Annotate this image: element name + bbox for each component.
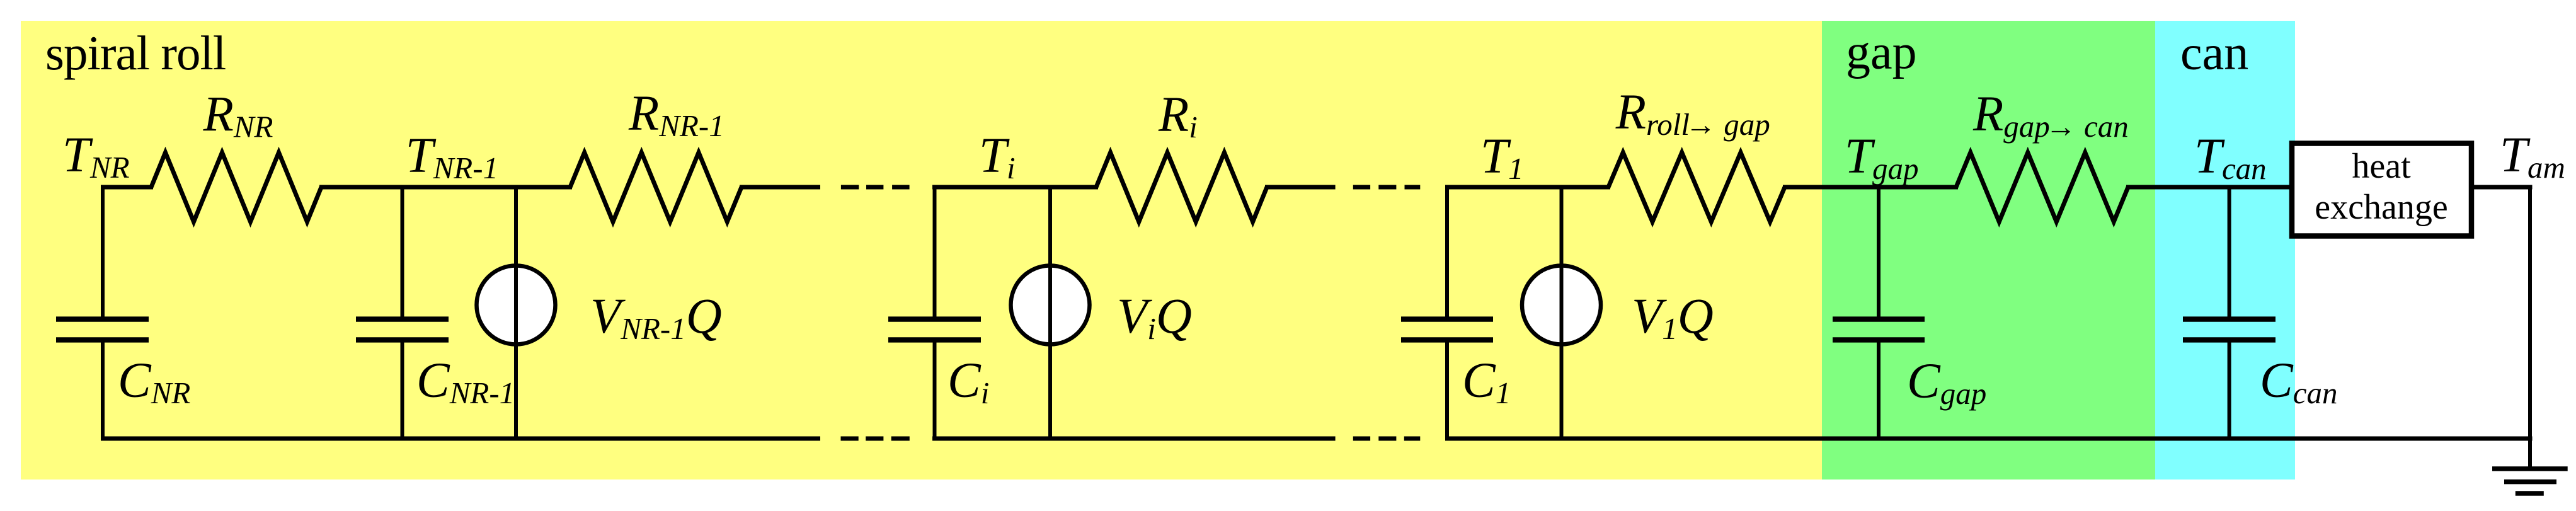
label C_1: [1462, 353, 1511, 410]
node T_NR branch: upper wire: [101, 185, 105, 322]
heat exchange block U1: [2292, 144, 2471, 236]
resistor R_i: [1096, 152, 1267, 222]
wire: top rail R_NR-1 to first ellipsis: [740, 185, 820, 190]
svg-text:spiral roll: spiral roll: [45, 26, 226, 80]
svg-text:Tam: Tam: [2500, 128, 2565, 185]
node T_i branch: upper wire: [933, 185, 937, 322]
wire: top rail T_NR to R_NR: [101, 185, 153, 190]
svg-text:exchange: exchange: [2315, 188, 2447, 227]
node T_can branch: lower wire: [2228, 340, 2231, 441]
wire: top rail R_gap-can to heat exchange box through node T_can: [2126, 185, 2289, 190]
label C_NR-1: [416, 353, 515, 410]
wire: top rail T_1 to R_roll-gap: [1445, 185, 1610, 190]
can region background: [2155, 21, 2295, 479]
resistor R_roll-gap: [1608, 152, 1785, 222]
wire: top rail T_i to R_i: [932, 185, 1098, 190]
node T_NR branch: lower wire: [101, 340, 105, 441]
node T_can branch: upper wire: [2228, 185, 2231, 322]
node T_NR-1 branch: upper wire: [401, 185, 404, 322]
wire: top rail ellipsis dashes left: [841, 185, 910, 190]
region label: spiral roll: [45, 26, 226, 80]
svg-text:heat: heat: [2352, 147, 2411, 186]
node T_NR-1 branch: lower wire: [401, 340, 404, 441]
spiral roll region background: [21, 21, 1822, 479]
svg-text:gap: gap: [1846, 25, 1917, 79]
wire: top rail R_roll-gap to R_gap-can through node T_gap: [1783, 185, 1958, 190]
label C_can: [2260, 353, 2337, 410]
wire: bottom rail ellipsis dashes right: [1353, 437, 1421, 441]
label R_roll-gap: [1615, 85, 1770, 142]
gap region background: [1822, 21, 2155, 479]
node label T_NR: [62, 128, 130, 185]
node label T_can: [2194, 129, 2267, 186]
node label T_NR-1: [406, 129, 498, 185]
label R_i: [1158, 88, 1198, 144]
node T_1 branch: upper wire: [1445, 185, 1449, 322]
wire: top rail R_NR to R_NR-1 through node T_NR-1: [319, 185, 572, 190]
label R_NR: [203, 88, 273, 144]
capacitor C_can: [2183, 319, 2275, 340]
region label: can: [2180, 25, 2248, 80]
svg-text:Ccan: Ccan: [2260, 353, 2337, 410]
label C_NR: [118, 353, 190, 410]
label V_i Q: [1117, 289, 1192, 346]
wire: top rail ellipsis dashes right: [1353, 185, 1421, 190]
label R_NR-1: [628, 86, 724, 143]
label R_gap-can: [1972, 87, 2129, 144]
wire: bottom rail middle section: [932, 437, 1336, 441]
heat source V_1 Q: [1522, 185, 1601, 441]
capacitor C_i: [888, 319, 981, 340]
label C_gap: [1907, 354, 1986, 411]
ground: [2492, 469, 2568, 493]
capacitor C_NR: [56, 319, 149, 340]
node T_i branch: lower wire: [933, 340, 937, 441]
label V_1 Q: [1632, 289, 1714, 346]
wire: bottom rail ellipsis dashes left: [841, 437, 910, 441]
label V_NR-1 Q: [590, 289, 722, 346]
node label T_am: [2500, 128, 2565, 185]
svg-text:can: can: [2180, 25, 2248, 80]
label C_i: [947, 353, 989, 410]
node T_gap branch: lower wire: [1877, 340, 1880, 441]
wire: top rail R_i to second ellipsis: [1265, 185, 1336, 190]
resistor R_NR-1: [570, 152, 741, 222]
wire: heat exchange box to right vertical: [2474, 185, 2533, 190]
wire: bottom rail left section: [101, 437, 820, 441]
node label T_gap: [1845, 129, 1918, 186]
resistor R_gap-can: [1956, 152, 2128, 222]
region label: gap: [1846, 25, 1917, 79]
node T_1 branch: lower wire: [1445, 340, 1449, 441]
heat source V_i Q: [1011, 185, 1090, 441]
capacitor C_1: [1401, 319, 1493, 340]
resistor R_NR: [151, 152, 321, 222]
capacitor C_gap: [1833, 319, 1925, 340]
node label T_1: [1480, 129, 1523, 186]
capacitor C_NR-1: [356, 319, 449, 340]
heat source V_NR-1 Q: [477, 185, 556, 441]
node T_gap branch: upper wire: [1877, 185, 1880, 322]
wire: bottom rail right section to ground vertical: [1445, 437, 2533, 441]
node label T_i: [979, 129, 1016, 185]
wire: right vertical from heat exchange to ground: [2528, 187, 2532, 469]
